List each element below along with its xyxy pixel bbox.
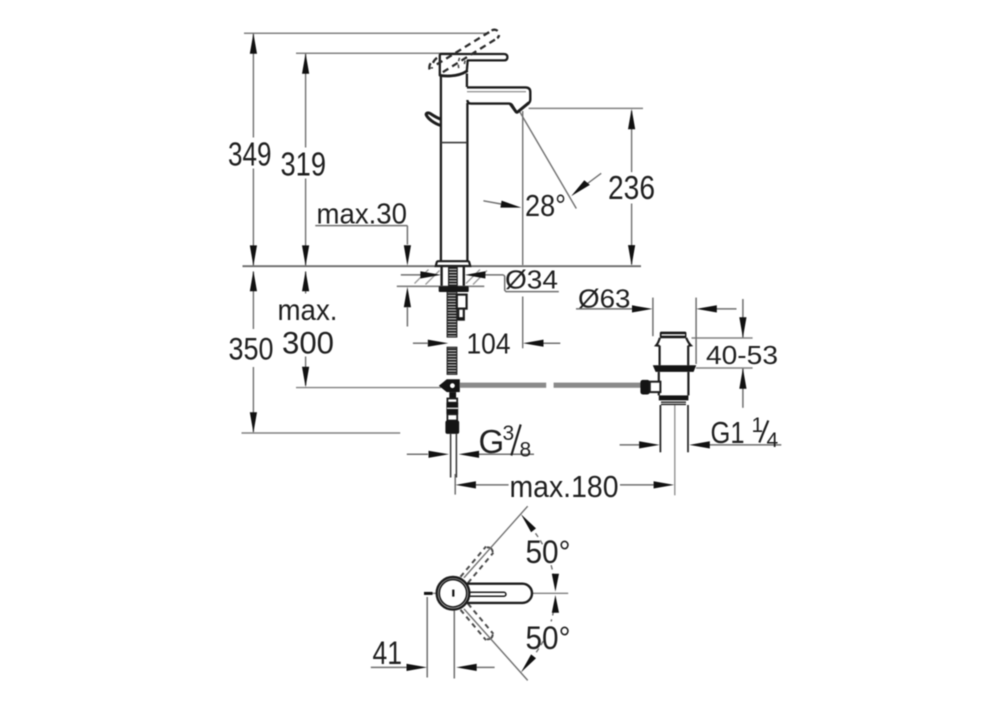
spout inner line [467,91,526,93]
column seam [441,142,467,144]
hose connector [445,399,459,434]
top view lever inner slot [466,592,506,596]
svg-text:max.: max. [278,294,338,327]
reference line bottom 350 [242,432,401,434]
label O63 [578,284,631,314]
svg-text:3: 3 [503,422,515,445]
dimension 350 arrows [250,271,257,433]
reference line top 319 [296,52,456,54]
drain flange [653,365,696,372]
drain rod connector [640,380,660,395]
drain thread band [659,395,689,404]
28deg leader left [483,201,521,208]
dashed lifted handle [429,30,499,73]
dimension 40-53 arrows [739,317,746,388]
threaded rod lower [447,347,457,374]
dimension max30 arrows [404,245,411,307]
reference line rod level max300 [296,387,441,389]
label G38 [479,422,532,462]
washer nut under deck [439,286,469,292]
svg-text:8: 8 [520,439,532,462]
piece below pivot [449,392,456,398]
svg-text:Ø34: Ø34 [505,265,558,295]
dimension max300 arrows [302,271,309,388]
label 41 [373,635,403,671]
svg-text:300: 300 [282,325,334,361]
dimension 236 arrows [628,109,635,266]
dimension 41 [371,597,495,679]
drain dome flanks [656,338,691,346]
label 236 [608,169,655,206]
reference line top 349 [244,32,489,34]
dimension max300 vertical line [305,272,307,386]
svg-text:G: G [479,423,505,460]
dimension 349 arrows [250,33,257,266]
pivot joint [439,379,460,392]
spout [467,87,530,112]
dimension 104 arrows [428,340,544,347]
top view lever [464,584,532,603]
mounting shank [442,267,464,286]
deck hatching [415,270,488,285]
dimension G114 arrows [639,441,710,448]
spout aerator emphasis [510,103,529,113]
side fitting upper [457,295,467,309]
label 40-53 [706,342,778,370]
label 104 [467,329,511,361]
drain neck [660,346,689,366]
faucet handle lever front [440,54,508,76]
threaded rod upper [447,292,457,337]
50deg rays [464,506,528,680]
label max300 [278,294,338,361]
label max180 [510,469,619,504]
dimension 104 [413,342,560,344]
dimension 40-53 vertical line [742,299,744,408]
deck flange [436,261,470,266]
svg-text:4: 4 [767,429,779,452]
label G114 [711,414,779,452]
svg-text:40-53: 40-53 [706,342,778,370]
drain cap [660,332,687,339]
drain body [659,372,689,395]
dimension G38 [407,453,534,455]
dimension max180 [455,474,653,495]
drain centerline [674,405,676,495]
dimension O34 [401,275,559,292]
reference line drain flange 40-53 [696,367,753,369]
deck underside line [397,285,485,287]
svg-text:max.180: max.180 [510,469,619,504]
lift rod knob [426,113,441,126]
dimension O63 arrows [632,305,717,312]
dimension max180 arrows [455,481,674,488]
label 349 [228,135,272,172]
svg-text:236: 236 [608,169,655,206]
svg-text:50°: 50° [526,620,571,656]
reference line spout outlet [529,107,643,109]
dimension 349 vertical line [252,34,254,265]
dimension O34 arrows [420,271,485,278]
top view circle levers dashed [461,547,494,641]
label 50deg lower [526,620,571,656]
svg-text:104: 104 [467,329,511,361]
dimension 350 vertical line [252,272,254,433]
dimension 319 vertical line [305,54,307,265]
dimension 41 arrows [407,664,477,671]
side fitting lower [458,309,465,320]
28deg leader right [571,173,601,196]
dimension G38 arrows [429,451,480,458]
drain tailpipe [660,405,688,452]
svg-text:1: 1 [752,414,764,437]
water stream line [519,110,577,208]
50deg arrows at centerline [552,574,559,613]
label 319 [281,146,327,183]
label 28deg [525,188,566,223]
svg-text:Ø63: Ø63 [578,284,631,314]
reference line drain top 40-53 [692,337,753,339]
dimension G114 [620,444,782,446]
label 50deg upper [526,534,571,570]
svg-text:28°: 28° [525,188,566,223]
label 350 [229,331,274,367]
deck line [243,265,642,267]
dimension 236 vertical line [631,111,633,265]
hidden handle dashes inside base [458,58,465,69]
50deg arrows tangent [521,514,536,672]
faucet body column [441,74,468,262]
svg-text:319: 319 [281,146,327,183]
top view body circle [437,577,470,610]
svg-text:350: 350 [229,331,274,367]
top view centerline [424,592,568,594]
pop-up rod [460,383,641,388]
supply hose lines [451,434,457,478]
svg-text:max.30: max.30 [317,199,408,231]
dimension 319 arrows [302,53,309,266]
handle base bottom emphasis [440,71,467,76]
svg-text:50°: 50° [526,534,571,570]
label max30 [317,199,408,231]
50deg arc dashes [536,533,554,653]
svg-text:349: 349 [228,135,272,172]
svg-text:G1: G1 [711,415,745,450]
label O34 [505,265,558,295]
svg-text:41: 41 [373,635,403,671]
dimension max30 [315,226,407,327]
outlet extension line [522,111,524,348]
dimension O63 [576,298,737,364]
